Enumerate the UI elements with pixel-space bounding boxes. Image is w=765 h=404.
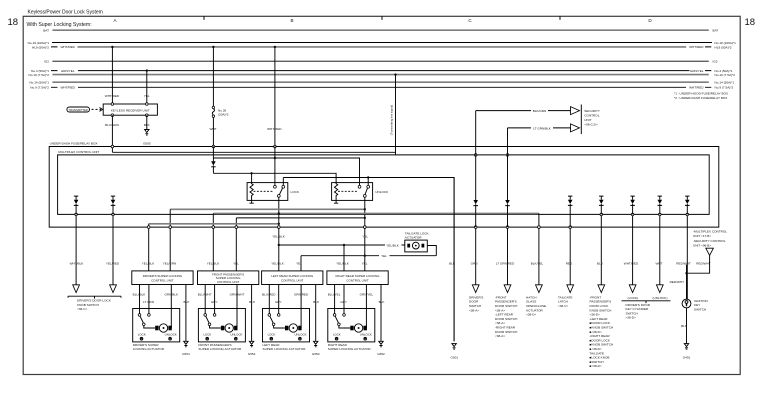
svg-text:CONTROL UNIT: CONTROL UNIT xyxy=(281,278,304,282)
svg-text:No.19 (100A)*1: No.19 (100A)*1 xyxy=(715,41,737,45)
svg-text:YEL/BLK: YEL/BLK xyxy=(272,234,285,238)
svg-text:GRN/YEL: GRN/YEL xyxy=(61,69,75,73)
svg-text:18: 18 xyxy=(8,17,19,28)
svg-text:LOCK: LOCK xyxy=(291,190,300,194)
svg-text:BAT: BAT xyxy=(713,28,719,32)
svg-text:(UNLOCK): (UNLOCK) xyxy=(653,296,668,300)
svg-text:LOCK: LOCK xyxy=(138,333,146,337)
svg-text:HL9 (50A)*2: HL9 (50A)*2 xyxy=(32,45,49,49)
svg-text:UNLOCK: UNLOCK xyxy=(294,333,306,337)
svg-text:GRN/WHT: GRN/WHT xyxy=(230,293,245,297)
svg-text:BLK: BLK xyxy=(183,300,190,304)
svg-text:UNIT: UNIT xyxy=(584,118,591,122)
svg-text:YEL/BLK: YEL/BLK xyxy=(336,262,349,266)
svg-text:-SECURITY CONTROL: -SECURITY CONTROL xyxy=(693,239,726,243)
svg-text:LOCK: LOCK xyxy=(268,333,276,337)
svg-text:B: B xyxy=(290,18,293,23)
svg-text:BLK: BLK xyxy=(449,262,456,266)
svg-text:LT GRN: LT GRN xyxy=(143,300,154,304)
svg-text:G552: G552 xyxy=(248,352,256,356)
svg-text:BLK/GRN: BLK/GRN xyxy=(533,109,547,113)
svg-text:SECURITY: SECURITY xyxy=(584,109,600,113)
svg-text:No.9 (7.5A)*2: No.9 (7.5A)*2 xyxy=(30,86,49,90)
svg-text:YEL: YEL xyxy=(362,262,368,266)
svg-text:BLK: BLK xyxy=(313,300,320,304)
svg-text:YEL: YEL xyxy=(233,262,239,266)
svg-text:TRANSMITTER: TRANSMITTER xyxy=(69,108,88,112)
svg-text:18: 18 xyxy=(745,17,756,28)
svg-text:G401: G401 xyxy=(683,356,691,360)
svg-text:<38-A>: <38-A> xyxy=(469,308,479,312)
svg-text:YEL/BLK: YEL/BLK xyxy=(142,262,155,266)
svg-text:No.9 (7.5A)*2: No.9 (7.5A)*2 xyxy=(715,86,734,90)
svg-text:LT GRN/RED: LT GRN/RED xyxy=(496,262,515,266)
svg-text:LT GRN/BLK: LT GRN/BLK xyxy=(533,126,552,130)
svg-text:WHT/RED: WHT/RED xyxy=(689,86,704,90)
svg-text:BLU/WHT: BLU/WHT xyxy=(198,293,212,297)
svg-text:<38-C>: <38-C> xyxy=(558,304,569,308)
svg-text:MULTIPLEX CONTROL UNIT: MULTIPLEX CONTROL UNIT xyxy=(58,150,99,154)
svg-text:■<38-D>: ■<38-D> xyxy=(590,364,602,368)
svg-text:YEL: YEL xyxy=(144,94,150,98)
svg-text:WHT/RED: WHT/RED xyxy=(60,45,75,49)
svg-text:LOCK: LOCK xyxy=(203,333,211,337)
svg-text:YEL: YEL xyxy=(362,234,368,238)
svg-text:WHT/RED: WHT/RED xyxy=(105,94,120,98)
svg-text:CONTROL UNIT: CONTROL UNIT xyxy=(217,280,240,284)
svg-text:CONTROL UNIT: CONTROL UNIT xyxy=(346,278,369,282)
svg-text:WHT: WHT xyxy=(655,262,662,266)
svg-text:UNDER-DASH FUSE/RELAY BOX: UNDER-DASH FUSE/RELAY BOX xyxy=(50,142,98,146)
svg-text:*2 : UNDER-DASH FUSE/RELAY B: *2 : UNDER-DASH FUSE/RELAY BOX xyxy=(674,96,727,100)
svg-text:CONTROL UNIT: CONTROL UNIT xyxy=(151,278,174,282)
svg-text:YEL: YEL xyxy=(296,262,302,266)
svg-text:ACTUATOR: ACTUATOR xyxy=(405,236,422,240)
svg-text:<38-D>: <38-D> xyxy=(526,313,537,317)
svg-text:<38-D>: <38-D> xyxy=(626,316,637,320)
svg-text:GRY: GRY xyxy=(340,300,347,304)
svg-text:With Super Locking System:: With Super Locking System: xyxy=(27,22,92,28)
svg-text:UNLOCK: UNLOCK xyxy=(230,333,242,337)
svg-text:YEL/GRN: YEL/GRN xyxy=(163,262,177,266)
svg-text:GRN/RED: GRN/RED xyxy=(294,293,309,297)
svg-text:BLU/RED: BLU/RED xyxy=(262,293,276,297)
svg-text:(Transmitting line signal): (Transmitting line signal) xyxy=(390,105,394,135)
svg-text:G652: G652 xyxy=(377,352,385,356)
svg-text:BLU/YEL: BLU/YEL xyxy=(328,293,341,297)
svg-text:SUPER LOCKING ACTUATOR: SUPER LOCKING ACTUATOR xyxy=(263,347,307,351)
svg-text:SUPER LOCKING ACTUATOR: SUPER LOCKING ACTUATOR xyxy=(198,347,242,351)
svg-text:BLK: BLK xyxy=(249,300,256,304)
svg-text:UNLOCK: UNLOCK xyxy=(360,333,372,337)
svg-text:BAT: BAT xyxy=(43,28,49,32)
svg-text:Keyless/Power Door Lock System: Keyless/Power Door Lock System xyxy=(28,10,103,16)
svg-text:No.19 (100A)*1: No.19 (100A)*1 xyxy=(28,41,50,45)
svg-text:GRN/BLK: GRN/BLK xyxy=(165,293,180,297)
svg-text:G505: G505 xyxy=(143,142,151,146)
svg-text:GRN/YEL: GRN/YEL xyxy=(360,293,374,297)
svg-text:KEYLESS RECEIVER UNIT: KEYLESS RECEIVER UNIT xyxy=(111,108,150,112)
svg-text:GRN: GRN xyxy=(471,262,478,266)
svg-text:WHT: WHT xyxy=(209,127,216,131)
svg-text:BLU/BLK: BLU/BLK xyxy=(133,293,147,297)
svg-text:YEL/RED: YEL/RED xyxy=(106,262,120,266)
svg-text:LOCK: LOCK xyxy=(333,333,341,337)
svg-text:WHT/RED: WHT/RED xyxy=(60,86,75,90)
svg-text:BLU: BLU xyxy=(597,262,603,266)
svg-text:WHT/RED: WHT/RED xyxy=(624,262,639,266)
svg-text:No.10 (7.5A)*2: No.10 (7.5A)*2 xyxy=(29,73,50,77)
svg-text:SWITCH: SWITCH xyxy=(694,307,706,311)
svg-text:SUPER LOCKING ACTUATOR: SUPER LOCKING ACTUATOR xyxy=(328,347,372,351)
svg-text:<38-C>: <38-C> xyxy=(77,307,88,311)
svg-text:No.14 (50A)*1: No.14 (50A)*1 xyxy=(29,80,49,84)
svg-text:No.14 (50A)*1: No.14 (50A)*1 xyxy=(715,80,735,84)
svg-text:RED/WHT: RED/WHT xyxy=(676,262,691,266)
svg-text:WHT/RED: WHT/RED xyxy=(267,127,282,131)
svg-text:LOCKING ACTUATOR: LOCKING ACTUATOR xyxy=(133,347,165,351)
svg-text:GRY: GRY xyxy=(275,300,282,304)
svg-text:RED/WHT: RED/WHT xyxy=(696,262,711,266)
svg-text:IG2: IG2 xyxy=(44,60,49,64)
svg-text:YEL/BLK: YEL/BLK xyxy=(386,243,399,247)
svg-text:RED/WHT: RED/WHT xyxy=(670,280,685,284)
svg-text:GRY: GRY xyxy=(211,300,218,304)
svg-text:<38-A>: <38-A> xyxy=(495,334,505,338)
svg-text:BLK/YEL: BLK/YEL xyxy=(531,262,544,266)
svg-text:YEL: YEL xyxy=(381,254,387,258)
svg-text:HL9 (50A)*2: HL9 (50A)*2 xyxy=(715,45,732,49)
svg-text:UNIT <96-B>: UNIT <96-B> xyxy=(693,243,711,247)
svg-text:BLK: BLK xyxy=(379,300,386,304)
svg-text:UNIT <17-B>: UNIT <17-B> xyxy=(693,234,711,238)
svg-text:<96-C,D>: <96-C,D> xyxy=(584,123,598,127)
svg-text:WHT/BLK: WHT/BLK xyxy=(70,262,85,266)
svg-text:(20A)*2: (20A)*2 xyxy=(218,113,229,117)
svg-text:UNLOCK: UNLOCK xyxy=(375,190,389,194)
svg-text:G650: G650 xyxy=(312,352,320,356)
svg-text:YEL/BLK: YEL/BLK xyxy=(207,262,220,266)
svg-text:YEL/BLK: YEL/BLK xyxy=(271,262,284,266)
svg-text:GRN/YEL: GRN/YEL xyxy=(690,69,704,73)
svg-text:BLK: BLK xyxy=(681,324,688,328)
svg-text:(LOCK): (LOCK) xyxy=(628,296,639,300)
svg-text:-MULTIPLEX CONTROL: -MULTIPLEX CONTROL xyxy=(693,230,727,234)
svg-text:WHT/RED: WHT/RED xyxy=(689,45,704,49)
svg-text:UNLOCK: UNLOCK xyxy=(165,333,177,337)
svg-text:RED: RED xyxy=(566,262,573,266)
svg-text:No.10 (7.5A)*2: No.10 (7.5A)*2 xyxy=(715,73,736,77)
svg-text:IG2: IG2 xyxy=(713,60,718,64)
svg-text:G501: G501 xyxy=(451,356,459,360)
svg-text:CONTROL: CONTROL xyxy=(584,114,599,118)
svg-text:G554: G554 xyxy=(182,352,190,356)
